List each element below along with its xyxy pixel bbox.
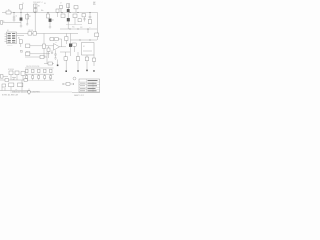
box on wire2 (24, 79, 27, 82)
capacitor C2 above bus (34, 4, 38, 8)
resistor R12 (26, 44, 30, 48)
resistor R13 (26, 52, 30, 56)
resistor R10 (19, 40, 22, 44)
wire stub (87, 29, 89, 33)
svg-text:12V: 12V (80, 27, 82, 29)
wire (65, 52, 67, 57)
box on jumper (66, 83, 70, 86)
resistor R20 (85, 57, 88, 61)
marks mid row (12, 78, 16, 81)
vert chain (48, 46, 50, 52)
transistor Q2 cluster (47, 13, 49, 19)
wire (63, 33, 78, 35)
capacitor C6 near op-amp (51, 50, 53, 53)
svg-text:C7: C7 (60, 3, 62, 5)
mark in box (83, 50, 92, 52)
resistor R5 (47, 14, 50, 18)
resistor R18 (65, 37, 68, 41)
wire vertical (70, 34, 72, 57)
wires (11, 75, 23, 80)
wire right edge drop (97, 13, 99, 41)
capacitor (33, 32, 36, 35)
wire h (71, 39, 98, 41)
node dots (80, 39, 91, 42)
wire second bus right (60, 28, 97, 30)
wire (74, 18, 76, 25)
ground blob (65, 70, 67, 72)
svg-text:VCC: VCC (72, 27, 75, 29)
svg-text:U1: U1 (7, 30, 9, 32)
wire (30, 53, 50, 55)
svg-text:R4a: R4a (41, 10, 44, 12)
resistor R22 (48, 62, 52, 65)
svg-text:TP1: TP1 (49, 77, 52, 79)
wire vertical (66, 34, 68, 45)
title block (79, 79, 100, 92)
wire (60, 51, 70, 53)
feedback resistor R15 (50, 38, 54, 41)
wire bottom left line (0, 90, 30, 92)
wire (74, 46, 76, 52)
wire vertical (77, 52, 79, 70)
wire (86, 61, 88, 70)
svg-text:K1: K1 (83, 46, 85, 48)
wire down (57, 60, 59, 65)
capacitor C12 marks (83, 17, 85, 22)
ground blob right (93, 70, 95, 72)
resistor R14 (43, 44, 46, 48)
capacitor C3 (57, 13, 59, 16)
wire (67, 13, 69, 30)
resistor R19 (73, 43, 77, 46)
wire output (60, 46, 67, 48)
wire (48, 52, 50, 58)
wire (26, 13, 28, 25)
revision circle (73, 77, 76, 80)
wire (60, 9, 62, 13)
svg-text:REV: REV (93, 4, 96, 6)
wire stub (57, 15, 59, 17)
wire (20, 21, 22, 26)
resistor R17 (47, 48, 50, 52)
capacitor C9 (54, 50, 56, 58)
wire mid rail (25, 73, 55, 75)
small box left low (64, 57, 67, 60)
wire (49, 22, 51, 27)
resistor R2 vertical above bus (20, 5, 23, 10)
wire from y57 (25, 56, 47, 58)
svg-text:1N4148 10uF 100n 4k7 BC547: 1N4148 10uF 100n 4k7 BC547 LM358 REV2 (12, 92, 40, 94)
end dots (63, 84, 75, 85)
transistor Q4 (67, 18, 70, 21)
ground (13, 20, 16, 21)
wire h (0, 79, 28, 81)
wire feedback (58, 39, 61, 47)
resistor R8 below bus (73, 14, 77, 18)
wire v2 (10, 87, 12, 91)
cap bank row2 boxes (26, 76, 52, 79)
wire (30, 45, 54, 47)
sub-circuit box K1 (82, 43, 95, 56)
ground blob (57, 65, 59, 67)
circle mark (20, 50, 22, 52)
small box mid right (78, 19, 81, 22)
svg-text:R4: R4 (38, 6, 40, 8)
vertical (46, 52, 48, 64)
wire (20, 9, 22, 18)
box mid2 (18, 83, 23, 87)
svg-text:SHEET 1 OF 2: SHEET 1 OF 2 (74, 95, 84, 97)
svg-text:R24: R24 (12, 78, 15, 80)
capacitor C1 (13, 13, 15, 21)
node dot (53, 44, 56, 47)
box row (9, 71, 13, 75)
capacitor C5 above bus (60, 6, 63, 9)
wire vertical center (43, 34, 45, 45)
vertical mark (28, 89, 30, 96)
transistor Q5 (69, 44, 72, 47)
ground blob (86, 70, 88, 72)
svg-text:D4: D4 (44, 3, 46, 5)
ground (49, 27, 52, 28)
wire top connection (44, 63, 54, 65)
connector J1 (0, 21, 2, 24)
wire (34, 13, 36, 32)
box on wire (5, 79, 9, 82)
wire (17, 35, 25, 37)
lower marks row (27, 74, 51, 80)
small jumper center bottom (63, 83, 75, 85)
svg-text:C1: C1 (16, 16, 18, 18)
wire (20, 44, 22, 48)
svg-text:Q2: Q2 (52, 20, 54, 22)
diode D1 column (67, 4, 70, 8)
resistor R3 chain (26, 15, 29, 20)
node dots on top bus (14, 11, 91, 14)
resistor R1 on bus (6, 11, 11, 14)
box mid (9, 83, 14, 87)
resistor R9 (88, 20, 91, 24)
cap bank boxes (26, 69, 52, 73)
resistor R4 (34, 9, 38, 13)
ground (54, 58, 57, 59)
transistor Q1 (20, 18, 23, 21)
wire main top bus (2, 12, 98, 14)
box on wire (40, 55, 44, 58)
transistor Q2 (49, 19, 52, 22)
svg-text:SH2: SH2 (93, 2, 96, 4)
svg-text:D2 D3 Q6: D2 D3 Q6 (8, 69, 14, 71)
wire (65, 60, 67, 70)
capacitor C4 (89, 13, 92, 20)
small box (82, 14, 85, 17)
ground (43, 56, 46, 57)
bottom border line with notes (10, 91, 72, 93)
bottom border right (72, 92, 100, 94)
wire (49, 38, 50, 40)
svg-text:TP2: TP2 (49, 78, 52, 80)
small box right (92, 58, 95, 61)
feedback resistor R16 (55, 38, 59, 41)
resistor R21 (76, 57, 79, 61)
wire (67, 4, 69, 13)
svg-text:R11 C8: R11 C8 (29, 30, 34, 32)
svg-text:R3: R3 (29, 16, 31, 18)
IC U1 pin grid (7, 32, 17, 44)
wire from IC (17, 33, 64, 35)
resistor pair on wire (28, 32, 32, 35)
transistor Q3 (67, 9, 70, 12)
wire (34, 4, 36, 13)
wire (3, 75, 8, 77)
small box right edge (95, 33, 99, 37)
wire (75, 9, 77, 13)
box low (2, 84, 6, 87)
resistor R7 below bus (61, 14, 65, 18)
wire (3, 22, 21, 24)
op-amp U2 (54, 44, 60, 51)
wire below box (86, 55, 88, 58)
svg-text:C10 C11 C12 C13 C14: C10 C11 C12 C13 C14 (26, 66, 40, 68)
wire v (21, 80, 23, 91)
IC left pin stubs (5, 34, 7, 42)
wire (43, 48, 45, 56)
node dots (70, 28, 89, 31)
wire mid right (66, 24, 82, 26)
marks (26, 24, 28, 25)
wire low rail (25, 79, 55, 81)
ground (20, 26, 23, 27)
connector left (0, 75, 3, 79)
marks left bottom (2, 87, 5, 91)
resistor R6 (74, 6, 78, 9)
wire v right (93, 55, 95, 66)
svg-text:CN2-HDR: CN2-HDR (7, 45, 12, 47)
svg-text:R1: R1 (8, 9, 10, 11)
wire top rail (25, 67, 54, 69)
ground blob (77, 70, 79, 72)
